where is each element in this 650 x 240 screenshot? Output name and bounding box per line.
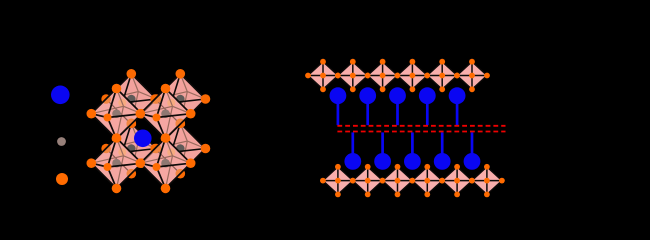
octahedron back-BR (back layer) xyxy=(150,119,210,179)
octahedron front-BR (front layer) xyxy=(101,69,210,193)
octahedron bottom-row-6 xyxy=(469,164,505,197)
A-site cation (blue ball, cell center) xyxy=(134,130,152,148)
octahedron top-row-2 xyxy=(335,59,371,92)
octahedron bottom-row-4 xyxy=(409,164,445,197)
octahedron top-row-6 xyxy=(454,59,490,92)
bottom spacer cation 4 (ball and stem) xyxy=(434,132,451,169)
top spacer cation 2 (ball and stem) xyxy=(359,87,376,125)
octahedron top-row-5 xyxy=(424,59,460,92)
octahedron bottom-row-3 xyxy=(380,164,416,197)
top spacer cation 5 (ball and stem) xyxy=(449,87,466,125)
octahedron front-TL (front layer) xyxy=(87,69,211,179)
octahedron bottom-row-5 xyxy=(439,164,475,197)
octahedron top-row-4 xyxy=(395,59,431,92)
octahedron front-BL (front layer) xyxy=(87,69,211,193)
top spacer cation 4 (ball and stem) xyxy=(419,87,436,125)
octahedron top-row-1 xyxy=(305,59,341,92)
octahedron back-BL (back layer) xyxy=(101,119,161,179)
octahedron bottom-row-1 xyxy=(320,164,356,197)
bottom spacer cation 3 (ball and stem) xyxy=(404,132,421,169)
van der Waals gap dashed line 2 xyxy=(337,131,505,133)
top spacer cation 3 (ball and stem) xyxy=(389,87,406,125)
octahedron front-TR (front layer) xyxy=(101,69,210,179)
octahedron top-row-3 xyxy=(365,59,401,92)
bottom spacer cation 1 (ball and stem) xyxy=(344,132,361,169)
bottom spacer cation 5 (ball and stem) xyxy=(464,132,481,169)
2D layered perovskite structure (right) xyxy=(305,59,505,198)
bottom spacer cation 2 (ball and stem) xyxy=(374,132,391,169)
van der Waals gap dashed line 1 xyxy=(337,125,505,127)
legend X-site orange sphere xyxy=(56,173,68,185)
octahedron back-TR (back layer) xyxy=(150,69,210,129)
3D perovskite structure (left) xyxy=(87,69,211,193)
octahedron back-TL (back layer) xyxy=(101,69,161,129)
legend A-site blue sphere xyxy=(51,86,70,105)
octahedron bottom-row-2 xyxy=(350,164,386,197)
legend B-site gray sphere xyxy=(57,137,66,146)
top spacer cation 1 (ball and stem) xyxy=(330,87,347,125)
